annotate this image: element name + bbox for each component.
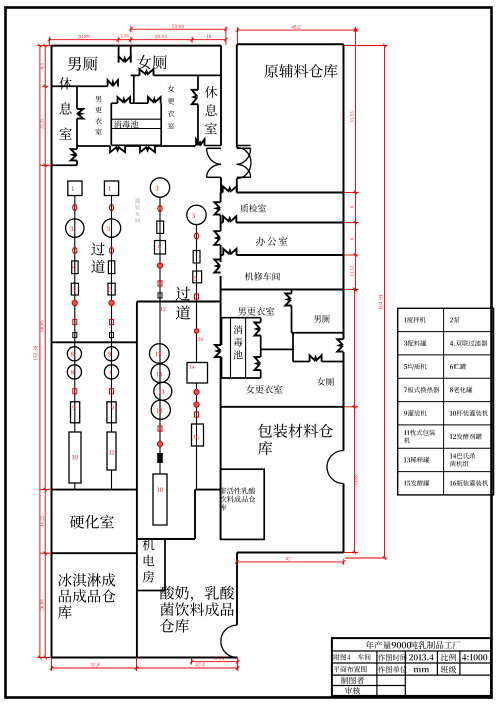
label: men changing 2 xyxy=(238,307,274,316)
process line 4 wire xyxy=(196,225,198,363)
door: locker south 2 xyxy=(140,146,155,152)
wall: restroom-R south w/ door xyxy=(195,145,196,147)
wall: vestibule south stub right xyxy=(237,145,251,147)
filter 4 (chain1) xyxy=(72,261,78,274)
homogenizer 5 (chain1) xyxy=(71,283,78,295)
wall: rooms west (x=220.6) xyxy=(220,193,222,203)
process line 3 wire xyxy=(159,197,161,474)
wall: changing divider (x=133.8) xyxy=(133,75,135,103)
wall: block2 divider x=293 lower xyxy=(292,333,294,362)
process line 2 wire xyxy=(111,196,113,433)
label: raw material warehouse xyxy=(265,64,338,78)
dim top 55.66 xyxy=(131,28,226,30)
tank 3 (chain1) xyxy=(66,219,84,237)
connector (chain3) k xyxy=(158,293,162,298)
dim label 32.8 xyxy=(90,663,99,667)
dilution tank 13b xyxy=(151,364,170,383)
wall: men toilet2 south (y=332.8) xyxy=(292,332,344,334)
wall: building bottom south (y=657.5) xyxy=(52,657,238,659)
label: women changing room v xyxy=(168,85,175,129)
dim 42 (packaging south) xyxy=(237,561,344,563)
pump (chain4) a xyxy=(194,233,198,239)
connector (chain3) d xyxy=(158,426,162,431)
pump (chain2) b xyxy=(109,247,113,253)
label: electro room v xyxy=(142,539,154,583)
homogenizer 5 (chain3) xyxy=(155,241,166,255)
dim right lower labels xyxy=(354,475,357,485)
pump circle (chain3) xyxy=(157,263,162,268)
dim label 5.78 xyxy=(120,34,128,37)
wall: left building east upper (x=221) xyxy=(220,46,222,146)
connector (chain4) r xyxy=(195,294,199,299)
dim bottom 32.8/42.4 xyxy=(52,667,238,669)
dim bottom 17.15 xyxy=(192,661,238,663)
vestibule bottom stubs xyxy=(207,176,221,178)
title: drawing unit label xyxy=(378,666,407,673)
door: pool top 1 xyxy=(118,97,131,103)
filter (chain4) xyxy=(193,251,200,263)
pump (chain1) b xyxy=(73,247,77,253)
dim label 18 xyxy=(207,35,211,39)
filling machine 9 (chain2) xyxy=(107,402,116,423)
dilution tank 13d xyxy=(151,400,170,419)
non-active beverage store box xyxy=(221,469,265,539)
wall: men toilet south (y=86.3) xyxy=(52,85,108,87)
wall: stub y=489.6 east xyxy=(195,489,221,491)
wall A (y=342.3) xyxy=(52,341,137,343)
mixer 1 (chain1) xyxy=(68,181,82,196)
door: office xyxy=(214,231,220,245)
aging tank 8a (chain1) xyxy=(67,347,81,361)
dim ext ticks top xyxy=(48,40,50,45)
pump circle (chain1) xyxy=(72,300,77,305)
connector (chain4) d xyxy=(195,412,199,417)
aging tank 8b (chain1) xyxy=(67,365,81,379)
bold connector (chain3) xyxy=(158,454,163,463)
door: office corner door xyxy=(223,216,236,222)
dim left labels xyxy=(40,63,43,69)
label: ice cream warehouse xyxy=(58,573,115,586)
dim right x=355.5 xyxy=(355,30,357,289)
title: factory name xyxy=(366,641,391,649)
wall: machine shop bottom (y=289.5) xyxy=(221,289,344,291)
dim top row2 xyxy=(49,39,226,41)
wall B (y=301.5) xyxy=(137,301,221,303)
dim left inner xyxy=(44,46,46,658)
dim ext bottom xyxy=(191,658,193,664)
label: women changing 2 xyxy=(246,385,282,394)
label: restroom left (vertical) xyxy=(59,77,72,139)
wall: packaging south (y=552.5) xyxy=(237,552,344,554)
wall: women toilet2 north (y=361.5) xyxy=(293,361,310,363)
wall: QC room bottom (y=222.5) xyxy=(221,222,224,224)
homogenizer 5 (chain4) xyxy=(193,271,202,283)
connector (chain1) k xyxy=(73,332,77,337)
title: mm xyxy=(414,668,430,672)
label: men toilet 2 xyxy=(314,315,330,323)
title: reviewer xyxy=(345,687,360,694)
label: disinfection pool (top) xyxy=(114,120,139,128)
pump circle (chain2) xyxy=(109,300,114,305)
dilution tank 13a xyxy=(150,344,170,364)
title: scale label xyxy=(441,654,456,661)
dim 104.91 top stub xyxy=(344,45,388,47)
title block grid xyxy=(332,638,491,696)
label: packaging warehouse xyxy=(258,424,333,438)
wall: hardening room top (y=489.6) xyxy=(52,489,137,491)
door: locker block 2 west xyxy=(215,345,221,357)
label: non-active beverage store xyxy=(220,487,256,494)
disinfection pool inner bands xyxy=(111,118,161,120)
bottle filler 16 (chain4) xyxy=(192,424,204,446)
door arcs: packaging east xyxy=(327,451,344,468)
door arcs: raw warehouse xyxy=(237,148,251,163)
mixer 1 (chain2) xyxy=(104,181,118,196)
tank 3 (chain3) xyxy=(150,178,169,197)
dilution tank 13c xyxy=(154,382,172,400)
wall: left building top (y=45.6) xyxy=(52,45,222,47)
wall: locker divider (x=77) xyxy=(76,86,78,109)
filter (chain3) xyxy=(157,221,164,233)
connector (chain3) r xyxy=(158,281,162,286)
pool2 inner dividers xyxy=(230,318,232,378)
label: corridor left xyxy=(91,242,105,273)
wall: block2 south (y=406.8) xyxy=(221,406,344,408)
aging tank 8 (chain2) xyxy=(104,347,118,361)
wall: electro room south (y=590.5) xyxy=(137,590,165,592)
dim left outer xyxy=(39,46,41,658)
cup filler 10 (chain1) xyxy=(69,432,81,483)
cup filler 10 (chain3) xyxy=(153,474,167,525)
label 12 (chain3) xyxy=(161,307,166,311)
wall: yogurt warehouse top (y=539) xyxy=(137,538,195,540)
dim 104.91 bottom stub xyxy=(345,557,387,559)
door: on x=77 wall xyxy=(77,109,83,119)
label: yogurt warehouse xyxy=(160,586,234,602)
legend table grid xyxy=(398,308,494,495)
wall: women toilet south (y=75.4) xyxy=(131,74,140,76)
label: disinfection pool 2 v xyxy=(233,325,242,359)
label: corridor right xyxy=(176,287,191,320)
door: pool top 2 xyxy=(148,97,161,103)
door: women toilet xyxy=(140,69,154,75)
wall: stub x=195 xyxy=(194,490,196,539)
door: block2 on x=291.5 xyxy=(285,294,291,306)
wall: restroom-R west (x=198) xyxy=(197,75,199,89)
gray vertical annotation xyxy=(135,198,140,223)
pump (chain3) a xyxy=(158,205,162,211)
label: women toilet (top) xyxy=(137,55,167,69)
double door arcs upper xyxy=(207,148,221,164)
door: lower-left on x=77 wall xyxy=(71,149,77,160)
disinfection pool 2 box xyxy=(222,317,261,319)
legend table text xyxy=(404,318,406,323)
pump circle (chain4) c xyxy=(194,402,199,407)
process line 1 wire xyxy=(74,196,76,433)
dim label 20.93 xyxy=(155,35,167,39)
title: sheet name xyxy=(334,654,371,660)
label: hardening room xyxy=(70,515,114,529)
dim right labels xyxy=(350,112,353,123)
title: drawing time label xyxy=(378,654,406,661)
pump 2 (chain1) xyxy=(73,204,77,210)
wall: right column east (x=343.5) xyxy=(343,44,345,339)
dim left stubs xyxy=(40,45,52,47)
label: men changing room v xyxy=(95,96,102,135)
double door arcs lower xyxy=(207,164,221,177)
tank 3 (chain4) xyxy=(187,205,206,224)
door: QC room xyxy=(214,202,220,214)
door: pool2 upper xyxy=(255,323,261,336)
door: women toilet2 xyxy=(310,355,322,361)
connector (chain1) r xyxy=(73,319,77,324)
pasteurizer 14 (chain4) xyxy=(187,363,208,384)
door arcs: yogurt south-east xyxy=(221,625,237,641)
pump circle (chain4) a xyxy=(194,329,198,333)
wall: electro room east (x=165) xyxy=(164,539,166,591)
dim label 42.4 xyxy=(195,663,204,667)
wall: restroom-L south (y=165.3) xyxy=(52,164,78,166)
dim label 20.89 xyxy=(78,35,90,39)
pillow packer 11 (chain2) xyxy=(107,432,116,470)
pump 2 (chain2) xyxy=(109,204,113,210)
tank 4 (chain2) xyxy=(104,365,118,379)
door: restroom-R xyxy=(192,90,198,104)
connector (chain2) r xyxy=(110,319,114,324)
wall: mid stub (y=349.4) xyxy=(261,348,293,350)
pump circle (chain4) b xyxy=(194,389,199,394)
dim right x=354.5 lower xyxy=(354,290,356,553)
wall: hardening room bottom (y=553.2) xyxy=(52,552,137,554)
dim top-right 48.2 xyxy=(237,29,355,31)
entrance door zigzag xyxy=(119,56,131,62)
wall: left building west (x=51.5) xyxy=(51,46,53,658)
wall: block2 divider x=291.5 xyxy=(291,290,293,294)
label: QC room xyxy=(240,204,266,212)
label: women toilet 2 xyxy=(317,377,334,385)
door: east wall toilets zigzag xyxy=(337,339,343,351)
connector (chain2) k xyxy=(110,332,114,337)
wall: east wall below vestibule xyxy=(220,177,222,192)
pump circle (chain3) e xyxy=(157,441,162,446)
dim overall height 104.91 xyxy=(384,46,386,559)
dim right stubs xyxy=(344,192,359,194)
label: office xyxy=(256,237,288,246)
wall: locker block south (y=146) xyxy=(77,145,110,147)
title: 4:1000 xyxy=(462,654,487,660)
filter 4 (chain2) xyxy=(108,261,114,274)
homogenizer 5 (chain2) xyxy=(108,283,115,295)
wall: yogurt east (x=237) xyxy=(236,553,238,626)
dim right lower stubs xyxy=(344,406,359,408)
wall: QC room top (y=192.5) xyxy=(221,192,223,194)
door: QC corner door xyxy=(223,186,237,192)
wall: office bottom (y=255) xyxy=(221,254,224,256)
filling machine 9 (chain1) xyxy=(71,402,80,423)
title: drafter xyxy=(341,677,364,684)
connector (chain1) c xyxy=(73,389,77,394)
wall: hall divider (x=136.9) xyxy=(136,302,138,658)
door: pool2 lower xyxy=(255,357,261,370)
label: men toilet (top-left) xyxy=(68,57,98,71)
label: machine repair shop xyxy=(245,272,280,280)
label: restroom right (vertical) xyxy=(205,86,217,134)
wall: raw warehouse west (x=236.8) xyxy=(236,44,238,147)
wall: raw material warehouse top (y=44.3) xyxy=(237,43,344,45)
entrance vestibule walls (top) xyxy=(118,46,120,57)
tank 3 (chain2) xyxy=(102,219,120,237)
door: mshop corner door xyxy=(223,249,236,255)
door: locker south 1 xyxy=(110,146,125,152)
title: 2013.4 xyxy=(409,654,434,660)
title: class label xyxy=(441,666,457,673)
disinfection pool box xyxy=(111,102,117,104)
connector (chain2) c xyxy=(110,389,114,394)
label 20 (chain4) xyxy=(198,337,203,341)
door: machine shop xyxy=(214,260,220,273)
door: men toilet right xyxy=(108,80,118,86)
